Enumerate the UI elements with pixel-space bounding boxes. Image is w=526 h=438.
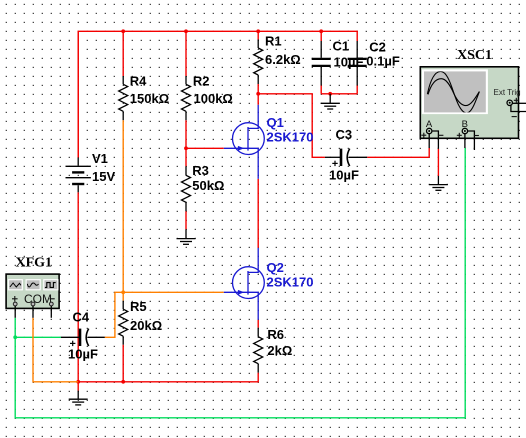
- wire C1 top lead: [320, 31, 322, 41]
- wire R2 top lead: [185, 31, 187, 76]
- svg-text:50kΩ: 50kΩ: [192, 178, 224, 193]
- svg-text:XFG1: XFG1: [16, 256, 53, 271]
- svg-text:C4: C4: [73, 310, 90, 325]
- capacitor C3: [325, 149, 367, 167]
- scope terminal B: [462, 128, 467, 148]
- XFG1 terminal minus: [49, 302, 53, 318]
- node junction bottom bus ground: [76, 380, 80, 384]
- wire V1 top lead: [77, 31, 79, 157]
- wire R1 bottom lead: [257, 84, 259, 94]
- transistor Q2 2SK170 JFET: [224, 248, 265, 320]
- scope terminal A: [427, 128, 432, 148]
- node junction top bus at R2: [184, 29, 188, 33]
- wire R1 junction to C3: [258, 94, 325, 158]
- node junction R2 R3 gate: [184, 146, 188, 150]
- resistor R2: [182, 76, 191, 120]
- scope A plus sign: [421, 98, 519, 138]
- svg-text:R6: R6: [267, 327, 284, 342]
- svg-text:R1: R1: [265, 34, 282, 49]
- wire green XFG plus net: [15, 148, 465, 418]
- ground bottom left: [69, 391, 88, 405]
- node junction bottom bus R5: [121, 380, 125, 384]
- svg-text:2kΩ: 2kΩ: [267, 343, 292, 358]
- node junction top bus at R4: [121, 29, 125, 33]
- transistor Q1 2SK170 JFET: [224, 105, 265, 179]
- svg-text:A: A: [426, 119, 433, 130]
- svg-text:2SK170: 2SK170: [267, 275, 314, 290]
- node junction top bus at R1: [256, 29, 260, 33]
- svg-text:C3: C3: [336, 127, 353, 142]
- resistor R4: [119, 76, 128, 120]
- svg-text:10µF: 10µF: [68, 347, 98, 362]
- svg-text:V1: V1: [92, 151, 108, 166]
- XFG1 terminal COM: [31, 302, 35, 318]
- wire scope A down: [428, 148, 430, 157]
- scope terminal B minus lead: [468, 131, 475, 150]
- wire orange to C4: [105, 292, 124, 337]
- wire C1 bottom lead: [320, 86, 322, 94]
- capacitor C4: [61, 329, 105, 347]
- svg-text:Ext Trig: Ext Trig: [494, 88, 521, 97]
- svg-text:XSC1: XSC1: [457, 48, 492, 63]
- battery V1: [66, 158, 91, 193]
- svg-text:10µF: 10µF: [329, 168, 359, 183]
- wire Q1 drain: [257, 94, 259, 105]
- XFG1 plus sign: [12, 296, 55, 302]
- wire R5 bottom lead: [122, 345, 124, 382]
- node junction orange gate2: [121, 290, 125, 294]
- svg-text:6.2kΩ: 6.2kΩ: [265, 52, 301, 67]
- scope waveform channel B: [428, 79, 479, 106]
- scope terminal Ext Trig: [507, 100, 526, 111]
- svg-text:150kΩ: 150kΩ: [130, 91, 169, 106]
- svg-text:15V: 15V: [92, 169, 115, 184]
- XFG1 terminal plus: [13, 302, 17, 318]
- wire V+ top bus: [78, 31, 357, 157]
- wire ground stem bottom: [77, 382, 79, 391]
- XFG1 triangle button icon: [27, 283, 38, 287]
- wire R2 bottom lead: [185, 120, 187, 148]
- svg-text:Q1: Q1: [267, 115, 284, 130]
- svg-text:2SK170: 2SK170: [267, 130, 314, 145]
- svg-text:C1: C1: [333, 39, 350, 54]
- wire Q2 gate wire (orange): [123, 291, 224, 293]
- wire Q1 source to Q2 drain: [257, 179, 259, 248]
- scope waveform channel A: [427, 72, 479, 114]
- svg-text:Q2: Q2: [267, 260, 284, 275]
- wire R1 top lead: [257, 31, 259, 39]
- wire Q1 gate wire: [186, 147, 224, 149]
- wire R3 bottom lead: [185, 211, 187, 229]
- wire Q2 source to R6: [257, 320, 259, 328]
- svg-text:R3: R3: [192, 163, 209, 178]
- node junction green: [13, 335, 17, 339]
- resistor R5: [119, 301, 128, 345]
- resistor R6: [254, 328, 263, 373]
- svg-text:0.1µF: 0.1µF: [366, 54, 400, 69]
- wire C3 to scope A: [367, 156, 429, 158]
- node junction top bus at C1: [319, 29, 323, 33]
- svg-text:C2: C2: [369, 39, 386, 54]
- svg-text:20kΩ: 20kΩ: [130, 318, 162, 333]
- svg-text:100kΩ: 100kΩ: [194, 91, 233, 106]
- svg-text:B: B: [462, 119, 468, 130]
- wire C1-C2 bottom bus: [321, 93, 357, 95]
- wire C2 top lead: [356, 31, 358, 41]
- wire scope A minus down: [437, 149, 439, 176]
- ground below scope A minus: [429, 176, 448, 190]
- ground below C1/C2: [321, 94, 340, 109]
- svg-text:COM: COM: [24, 292, 52, 306]
- resistor R1: [254, 40, 263, 85]
- wire V1 bottom to bus: [77, 192, 79, 381]
- scope terminal A minus lead: [432, 131, 439, 149]
- wire R4 top lead: [122, 31, 124, 76]
- wire R4 bottom to gate2 junction (orange): [122, 120, 124, 292]
- svg-text:R2: R2: [193, 74, 210, 89]
- oscilloscope XSC1 body: [420, 67, 518, 139]
- node junction C1C2 ground: [328, 92, 332, 96]
- wire C2 bottom lead: [356, 86, 358, 94]
- capacitor C2: [348, 41, 367, 86]
- wire R5 top lead (orange): [122, 292, 124, 300]
- capacitor C1: [312, 41, 331, 86]
- ground below R3: [177, 229, 196, 244]
- XFG1 sine button icon: [10, 283, 21, 287]
- wire R3 top lead: [185, 148, 187, 166]
- wire green branch to C4: [15, 336, 61, 338]
- XFG1 square button icon: [45, 283, 56, 288]
- wire R6 bottom to bus: [78, 373, 258, 382]
- svg-text:10µF: 10µF: [334, 55, 364, 70]
- resistor R3: [182, 166, 191, 211]
- function generator XFG1 body: [6, 274, 59, 308]
- wire bottom bus orange segment: [33, 318, 78, 382]
- svg-text:R4: R4: [130, 74, 147, 89]
- node junction R1 bottom: [256, 92, 260, 96]
- svg-text:R5: R5: [130, 299, 147, 314]
